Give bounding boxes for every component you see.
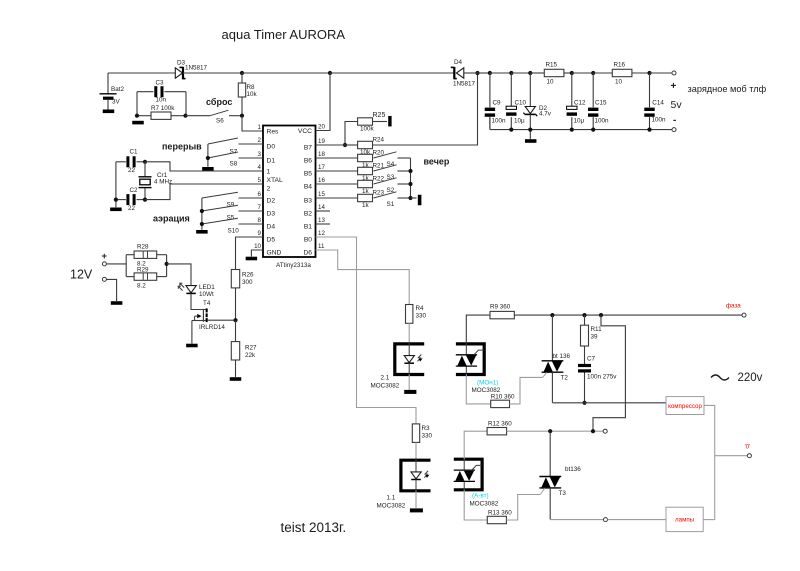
svg-text:100n: 100n (492, 117, 507, 124)
svg-text:сброс: сброс (206, 97, 232, 107)
wire IC pin 12 B0 to R3 (316, 237, 417, 424)
terminal 12V minus (102, 277, 106, 281)
svg-text:фаза: фаза (726, 303, 741, 310)
label аэрация (153, 214, 190, 224)
svg-text:R26: R26 (242, 272, 254, 279)
resistor R11 39 (581, 315, 603, 346)
svg-text:T3: T3 (559, 490, 567, 497)
label 5v (671, 99, 683, 111)
phototriac inside U3 (454, 459, 482, 490)
wire switch common S4-S1 (408, 158, 412, 200)
svg-text:10μ: 10μ (514, 117, 525, 124)
svg-text:R16: R16 (614, 62, 626, 69)
switch S2 (374, 178, 411, 194)
ground below S7/S8 (202, 167, 214, 171)
switch S9 (202, 192, 263, 208)
svg-text:D3: D3 (267, 211, 276, 218)
switch S8 (208, 152, 263, 168)
svg-text:D1: D1 (267, 158, 276, 165)
wire лампы to neutral riser (703, 519, 715, 521)
wire T4 gate to R26/R27 junction (208, 319, 236, 321)
svg-text:aqua Timer AURORA: aqua Timer AURORA (222, 27, 346, 42)
svg-text:1: 1 (258, 124, 262, 131)
svg-text:8: 8 (258, 217, 262, 224)
title aqua Timer AURORA (222, 27, 346, 42)
switch S7 (208, 138, 263, 156)
svg-text:R4: R4 (416, 305, 425, 312)
wire rail junction R8 to VCC riser junction (242, 72, 330, 74)
resistor R8 10k (238, 73, 257, 116)
wire T4 source to ground (191, 321, 193, 344)
svg-text:22k: 22k (245, 352, 256, 359)
svg-text:2.1: 2.1 (381, 375, 390, 382)
svg-text:вечер: вечер (424, 157, 450, 167)
svg-text:2: 2 (267, 186, 271, 193)
ground below 12V minus (111, 301, 123, 305)
svg-text:лампы: лампы (675, 517, 695, 524)
svg-text:bt136: bt136 (565, 466, 581, 473)
LED inside optocoupler 1.1 (411, 458, 429, 493)
svg-text:100n 275v: 100n 275v (587, 374, 617, 381)
svg-text:15: 15 (318, 191, 325, 198)
component компрессор box (666, 397, 704, 415)
svg-text:9: 9 (258, 230, 262, 237)
switch S5 (202, 205, 263, 221)
svg-text:100n: 100n (595, 117, 610, 124)
label MOC3082 (1.1) (377, 503, 406, 510)
svg-text:D4: D4 (454, 59, 463, 66)
svg-text:11: 11 (318, 243, 325, 250)
wire VCC pin 20 riser to rail (316, 73, 331, 131)
svg-text:S6: S6 (216, 118, 224, 125)
node junction C2/crystal bottom (143, 198, 147, 202)
diode D4 1N5817 (schottky) (451, 59, 478, 88)
wire R28/R29 to LED1 (167, 264, 191, 285)
svg-text:10μ: 10μ (574, 117, 585, 124)
optocoupler U3 LED side 1.1 MOC3082 box (401, 460, 431, 491)
node junction C15 top (591, 71, 595, 75)
svg-text:5: 5 (258, 177, 262, 184)
wire optocoupler 2.1 cathode to bar (408, 375, 410, 391)
triac T2 bt136 (542, 315, 571, 403)
svg-text:XTAL: XTAL (267, 177, 284, 184)
svg-text:14: 14 (318, 204, 325, 211)
svg-text:R27: R27 (245, 345, 257, 352)
svg-text:10Wt: 10Wt (199, 291, 214, 298)
ground bar below optocoupler 1.1 (410, 508, 423, 512)
svg-text:D4: D4 (267, 224, 276, 231)
crystal Cr1 4 MHz (139, 162, 173, 200)
svg-text:R12 360: R12 360 (488, 421, 512, 428)
wire optocoupler U3 top to R12 (464, 431, 487, 459)
node junction C10 top (509, 71, 513, 75)
node junction R8/S6 to Res pin (240, 114, 244, 118)
resistor R4 330 (406, 305, 427, 324)
svg-text:MOC3082: MOC3082 (371, 383, 400, 390)
resistor R26 300 (231, 270, 254, 288)
svg-text:20: 20 (318, 123, 325, 130)
svg-text:T4: T4 (203, 300, 211, 307)
wire optocoupler U2 bottom to R10 (466, 375, 490, 404)
label перерыв (162, 142, 202, 152)
label MOC3082 (U2 triac) (472, 387, 501, 394)
node junction C3/R7 right to switch S6 (183, 114, 187, 118)
label MOC3082 (2.1) (371, 383, 400, 390)
wire optocoupler U3 bottom to R13 (464, 490, 487, 520)
node junction C1/crystal top (143, 160, 147, 164)
svg-text:S8: S8 (230, 161, 238, 168)
terminal on lamp feed line (603, 429, 607, 433)
ground below D2 (525, 139, 537, 143)
svg-text:4: 4 (258, 164, 262, 171)
svg-text:Res: Res (267, 129, 280, 136)
wire R16 to C14 (632, 72, 650, 74)
label 0 (745, 444, 751, 451)
phototriac inside U2 (456, 344, 484, 375)
svg-text:R13 360: R13 360 (488, 509, 512, 516)
transistor T4 IRLRD14 (mosfet) (192, 300, 225, 331)
svg-text:10k: 10k (247, 91, 258, 98)
svg-text:R15: R15 (546, 62, 558, 69)
svg-text:зарядное моб тлф: зарядное моб тлф (688, 84, 767, 94)
svg-text:IRLRD14: IRLRD14 (199, 324, 225, 331)
svg-text:10: 10 (547, 79, 555, 86)
terminal фаза (742, 313, 746, 317)
svg-text:R24: R24 (373, 137, 385, 144)
svg-text:220v: 220v (738, 372, 763, 384)
svg-text:18: 18 (318, 151, 325, 158)
switch S4 (374, 152, 411, 168)
svg-text:R3: R3 (422, 425, 431, 432)
svg-text:12: 12 (318, 230, 325, 237)
ground bus under filter caps (490, 117, 672, 132)
optocoupler U2 triac side box (456, 344, 484, 375)
wire pin 14 B2 stub (316, 210, 331, 212)
node junction B7/R24/R25 (343, 143, 347, 147)
svg-text:Bat2: Bat2 (111, 86, 124, 93)
terminal plus output (672, 71, 676, 75)
node junction C12 top (570, 71, 574, 75)
svg-text:аэрация: аэрация (153, 214, 190, 224)
wire C12 to C15 (572, 72, 593, 74)
svg-text:2: 2 (258, 137, 262, 144)
resistor R13 360 (487, 509, 512, 523)
svg-text:1.1: 1.1 (387, 495, 396, 502)
wire R4 to optocoupler 2.1 (408, 323, 410, 341)
resistor R22 1k (316, 176, 385, 196)
resistor R9 360 (466, 304, 514, 344)
terminal 0 (747, 454, 751, 458)
svg-text:C3: C3 (156, 80, 165, 87)
resistor R12 360 (487, 421, 512, 435)
node junction lamp feed lands (591, 429, 595, 433)
optocoupler U2 LED side 2.1 MOC3082 box (395, 344, 424, 375)
label вечер (424, 157, 450, 167)
svg-text:bt 136: bt 136 (553, 353, 571, 360)
label сброс (206, 97, 232, 107)
wire R15 to C12 (564, 72, 572, 74)
svg-text:10: 10 (254, 243, 261, 250)
wire compressor bus (552, 402, 666, 404)
node junction C7 bottom on bus (582, 401, 586, 405)
resistor R7 100k (137, 105, 186, 119)
svg-text:7: 7 (258, 204, 262, 211)
svg-text:330: 330 (422, 433, 433, 440)
wire R12 to T3 and feed junction (507, 430, 604, 432)
svg-text:4.7v: 4.7v (539, 111, 552, 118)
node junction rail after D4 (475, 71, 479, 75)
label cyan opto U3 (472, 493, 489, 500)
svg-text:R25: R25 (373, 112, 386, 119)
svg-text:330: 330 (416, 313, 427, 320)
svg-text:22: 22 (128, 205, 136, 212)
wire rail D2 to R15 (530, 72, 544, 74)
label 1.1 (387, 495, 396, 502)
svg-text:R7 100k: R7 100k (151, 105, 175, 112)
svg-text:D6: D6 (303, 250, 312, 257)
svg-text:MOC3082: MOC3082 (377, 503, 406, 510)
zener diode D2 4.7v (523, 73, 551, 130)
wire pin 13 B1 stub (316, 223, 331, 225)
svg-text:1k: 1k (362, 202, 370, 209)
node junction lamp feed on фаза rail (599, 313, 603, 317)
node junction C9 top (488, 71, 492, 75)
switch S1 (374, 192, 411, 208)
wire R24 to rail riser (373, 73, 478, 145)
battery Bat2 3V (100, 73, 125, 110)
diode D3 1N5817 (schottky) (175, 60, 207, 80)
svg-text:C9: C9 (493, 100, 502, 107)
svg-text:1N5817: 1N5817 (185, 65, 208, 72)
svg-text:C7: C7 (587, 356, 596, 363)
wire XTAL2 pin 5 route (145, 184, 263, 200)
svg-text:перерыв: перерыв (162, 142, 202, 152)
label minus sign (673, 115, 676, 126)
ground bar below optocoupler 2.1 (404, 390, 416, 394)
resistor R29 8.2 (126, 255, 166, 290)
svg-text:C14: C14 (652, 100, 664, 107)
svg-text:+: + (102, 251, 108, 262)
wire rail C10 to D2 (511, 72, 530, 74)
resistor R25 100k (345, 112, 387, 145)
ground below R7 left junction (132, 121, 144, 125)
wire LED1 cathode to T4 drain (191, 293, 206, 309)
svg-text:12V: 12V (70, 268, 93, 282)
terminal inline on lamps bus (604, 518, 608, 522)
svg-text:100k: 100k (360, 126, 375, 133)
wire R10 to T2 gate (510, 377, 543, 404)
svg-text:13: 13 (318, 217, 325, 224)
svg-text:C2: C2 (130, 187, 139, 194)
ground below IC pin 10 (246, 257, 258, 261)
wire optocoupler 1.1 cathode to bar (415, 491, 417, 508)
svg-text:B5: B5 (304, 171, 312, 178)
label teist 2013г. (281, 520, 347, 535)
svg-text:16: 16 (318, 177, 325, 184)
svg-text:39: 39 (591, 334, 599, 341)
capacitor C15 100n (588, 73, 609, 130)
label 220v (738, 372, 763, 384)
svg-text:R11: R11 (591, 326, 603, 333)
switch S6 (сброс) (186, 110, 243, 124)
wire IC pin 10 GND to ground (251, 250, 263, 257)
wire C15 to R16 (593, 72, 612, 74)
ground below R27 (230, 377, 242, 381)
node junction C3/R7 left with ground (135, 114, 139, 118)
label 12V (70, 268, 93, 282)
svg-text:19: 19 (318, 138, 325, 145)
capacitor C7 100n 275v (578, 346, 617, 403)
capacitor C12 10u (567, 73, 586, 130)
IC pin numbers and pin names right side (298, 123, 326, 256)
label cyan opto U2 (477, 380, 498, 387)
resistor R3 330 (412, 424, 432, 443)
svg-text:3: 3 (258, 151, 262, 158)
svg-text:6: 6 (258, 191, 262, 198)
wire R13 to T3 gate (506, 495, 540, 521)
svg-text:10n: 10n (156, 97, 167, 104)
svg-text:B1: B1 (304, 224, 312, 231)
IC pin numbers and pin names left side (254, 124, 283, 257)
svg-text:S5: S5 (227, 215, 235, 222)
label plus 12V (102, 251, 108, 262)
wire 12V minus to ground (106, 279, 116, 301)
wire R3 to optocoupler 1.1 (415, 442, 417, 460)
wire C14 to plus terminal (650, 72, 673, 74)
resistor R15 10 (544, 62, 564, 86)
label 220v squiggle (711, 375, 729, 380)
resistor R20 1k (316, 150, 385, 170)
svg-text:B7: B7 (304, 145, 312, 152)
svg-text:компрессор: компрессор (668, 403, 702, 410)
node junction R28/R29 output (165, 262, 169, 266)
svg-text:B6: B6 (304, 158, 312, 165)
label plus sign (671, 81, 677, 92)
svg-text:R9 360: R9 360 (490, 304, 511, 311)
wire фаза rail (514, 314, 742, 316)
ground below C1/C2 (110, 208, 122, 212)
power bar after S1 (418, 195, 422, 206)
label MOC3082 (U3 triac) (470, 501, 499, 508)
wire IC pin 9 D5 to R26 (236, 237, 264, 270)
svg-text:(МОн1): (МОн1) (477, 380, 498, 387)
svg-text:C10: C10 (515, 100, 527, 107)
svg-text:(А-вт): (А-вт) (472, 493, 489, 500)
svg-text:5v: 5v (671, 99, 683, 111)
wire D3 cathode to R8 top junction (183, 72, 242, 74)
svg-text:S10: S10 (228, 228, 240, 235)
svg-text:8.2: 8.2 (137, 283, 146, 290)
node junction VCC riser on rail (328, 71, 332, 75)
svg-text:10: 10 (615, 79, 623, 86)
wire rail to D4 cathode (330, 72, 454, 74)
capacitor C1 22 (116, 149, 145, 175)
svg-text:B4: B4 (304, 184, 312, 191)
wire rail D4 junction to C9 (478, 72, 490, 74)
label фаза (726, 303, 741, 310)
svg-text:D0: D0 (267, 144, 276, 151)
svg-text:S1: S1 (387, 201, 395, 208)
switch S3 (374, 165, 411, 181)
svg-text:S9: S9 (227, 202, 235, 209)
component лампы box (666, 507, 703, 531)
capacitor C10 10u (506, 73, 526, 130)
node junction D2 top (528, 71, 532, 75)
svg-text:R28: R28 (137, 244, 149, 251)
wire lamp feed from фаза rail (593, 315, 625, 431)
capacitor C9 100n (485, 73, 506, 130)
label зарядное моб тлф (688, 84, 767, 94)
label ATtiny2313a (276, 262, 311, 269)
capacitor C14 100n (644, 73, 666, 130)
wire IC pin 11 D6 to R4 (316, 250, 410, 305)
wire top supply rail from battery to D3 anode (108, 72, 176, 74)
capacitor C2 22 (116, 187, 145, 212)
resistor R24 10k (316, 137, 385, 157)
svg-text:R8: R8 (247, 84, 256, 91)
wire XTAL1 pin 4 route (145, 162, 263, 171)
wire S7/S8 common to ground (206, 144, 210, 167)
node junction T2 top on фаза rail (550, 313, 554, 317)
terminal 12V plus (102, 262, 106, 266)
svg-text:GND: GND (267, 250, 282, 257)
LED LED1 10Wt (178, 283, 215, 298)
resistor R16 10 (612, 62, 632, 86)
node junction gate/R26/R27 (233, 318, 237, 322)
svg-text:D5: D5 (267, 237, 276, 244)
LED inside optocoupler 2.1 (404, 342, 422, 377)
ground below T4 source (186, 344, 198, 348)
svg-text:LED1: LED1 (199, 284, 215, 291)
svg-text:D2: D2 (267, 198, 276, 205)
node junction C14 top (647, 71, 651, 75)
wire junction to R27 (235, 320, 237, 341)
wire common to power bar (411, 197, 417, 199)
svg-text:B0: B0 (304, 237, 312, 244)
svg-text:teist 2013г.: teist 2013г. (281, 520, 347, 535)
wire 12V plus to R28/R29 (106, 263, 126, 265)
resistor R10 360 (491, 394, 515, 408)
svg-text:R29: R29 (137, 267, 149, 274)
power bar after R25 (388, 116, 391, 127)
node junction at R8 top on rail (240, 71, 244, 75)
wire S9/S5/S10 common to ground (200, 198, 204, 230)
svg-text:C1: C1 (130, 149, 139, 156)
svg-text:B3: B3 (304, 198, 312, 205)
wire R27 to ground (235, 360, 237, 377)
ground below S9/S5/S10 (196, 230, 208, 234)
op-amp U1 ATtiny2313a IC body (263, 126, 316, 258)
wire компрессор to neutral riser (704, 405, 715, 519)
ground below battery Bat2 (103, 110, 115, 114)
wire 0 branch (715, 455, 748, 457)
svg-text:B2: B2 (304, 211, 312, 218)
label 2.1 (381, 375, 390, 382)
wire D2 column to ground (529, 130, 531, 139)
svg-text:+: + (671, 81, 677, 92)
triac T3 bt136 (539, 431, 581, 519)
resistor R28 8.2 (126, 244, 166, 277)
terminal minus output (672, 128, 676, 132)
node junction R11 top on фаза rail (582, 313, 586, 317)
svg-text:300: 300 (242, 279, 253, 286)
svg-text:MOC3082: MOC3082 (470, 501, 499, 508)
svg-text:VCC: VCC (298, 128, 312, 135)
wire lamps bus right (608, 519, 667, 521)
svg-text:22: 22 (128, 167, 136, 174)
node junction T3 top (548, 429, 552, 433)
svg-text:1: 1 (267, 169, 271, 176)
